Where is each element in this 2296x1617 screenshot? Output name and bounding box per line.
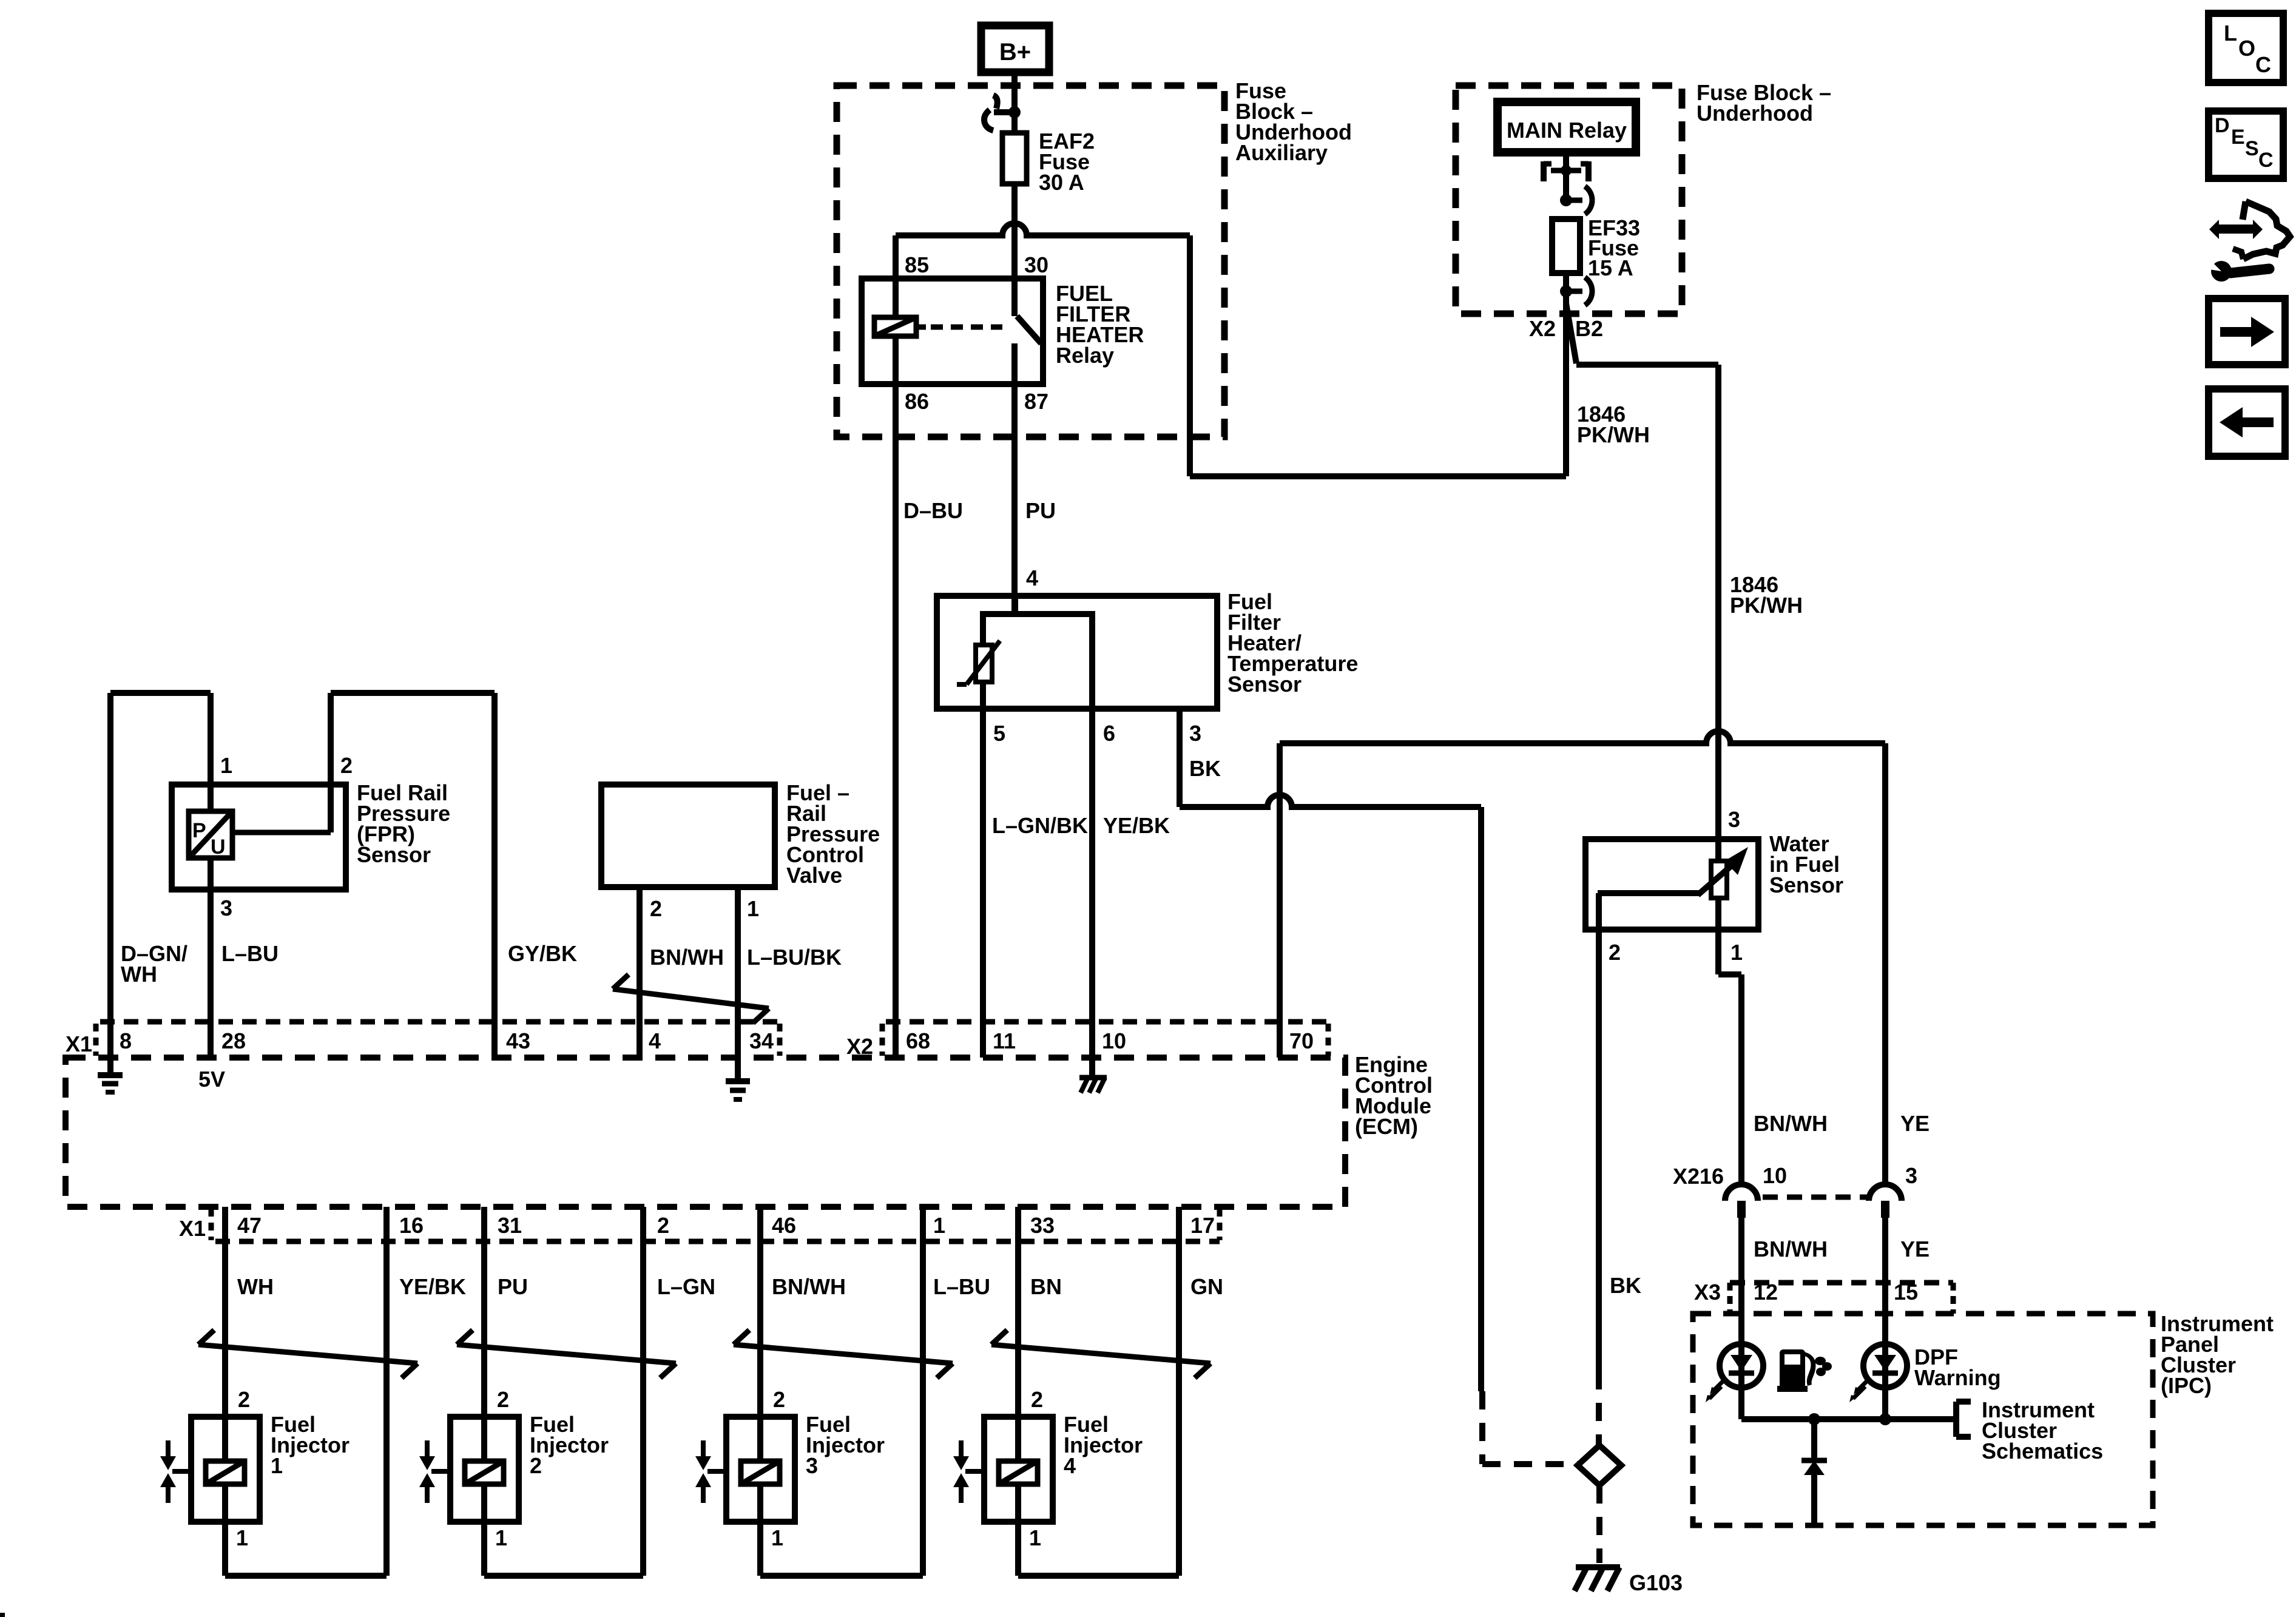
svg-text:10: 10 bbox=[1102, 1028, 1126, 1053]
svg-text:L–GN: L–GN bbox=[657, 1274, 715, 1299]
svg-text:YE: YE bbox=[1900, 1237, 1930, 1261]
svg-text:L–GN/BK: L–GN/BK bbox=[992, 813, 1088, 838]
svg-text:L–BU: L–BU bbox=[221, 941, 279, 966]
svg-text:46: 46 bbox=[772, 1213, 796, 1238]
svg-text:8: 8 bbox=[120, 1028, 132, 1053]
svg-text:X2: X2 bbox=[846, 1034, 873, 1059]
svg-text:17: 17 bbox=[1190, 1213, 1215, 1238]
svg-text:D–BU: D–BU bbox=[903, 498, 963, 523]
svg-text:S: S bbox=[2245, 137, 2259, 160]
svg-text:WH: WH bbox=[237, 1274, 274, 1299]
svg-text:C: C bbox=[2258, 149, 2274, 172]
svg-text:GN: GN bbox=[1190, 1274, 1223, 1299]
svg-text:X3: X3 bbox=[1694, 1280, 1721, 1305]
svg-text:34: 34 bbox=[749, 1028, 774, 1053]
svg-text:D: D bbox=[2215, 114, 2230, 137]
svg-text:YE: YE bbox=[1900, 1111, 1930, 1136]
svg-text:30: 30 bbox=[1024, 252, 1048, 277]
svg-text:2: 2 bbox=[657, 1213, 669, 1238]
svg-text:16: 16 bbox=[399, 1213, 424, 1238]
svg-text:YE/BK: YE/BK bbox=[399, 1274, 466, 1299]
svg-text:1: 1 bbox=[1029, 1525, 1041, 1550]
svg-text:G103: G103 bbox=[1629, 1570, 1683, 1595]
svg-text:BN/WH: BN/WH bbox=[772, 1274, 846, 1299]
svg-text:2: 2 bbox=[773, 1387, 785, 1412]
svg-text:L–BU: L–BU bbox=[933, 1274, 990, 1299]
svg-text:43: 43 bbox=[506, 1028, 530, 1053]
svg-text:3: 3 bbox=[220, 896, 232, 920]
svg-text:L–BU/BK: L–BU/BK bbox=[747, 945, 842, 970]
svg-text:4: 4 bbox=[649, 1028, 661, 1053]
svg-text:12: 12 bbox=[1754, 1280, 1778, 1305]
svg-text:2: 2 bbox=[497, 1387, 509, 1412]
svg-text:P: P bbox=[192, 819, 206, 842]
svg-text:BK: BK bbox=[1610, 1273, 1641, 1298]
svg-text:PK/WH: PK/WH bbox=[1577, 422, 1650, 447]
svg-text:X2: X2 bbox=[1529, 316, 1556, 341]
svg-text:1: 1 bbox=[220, 753, 232, 778]
svg-text:87: 87 bbox=[1024, 389, 1048, 414]
svg-text:GY/BK: GY/BK bbox=[508, 941, 577, 966]
svg-text:1: 1 bbox=[236, 1525, 248, 1550]
svg-text:70: 70 bbox=[1289, 1028, 1314, 1053]
svg-text:Schematics: Schematics bbox=[1982, 1439, 2103, 1463]
svg-text:X216: X216 bbox=[1673, 1164, 1724, 1189]
svg-text:5V: 5V bbox=[198, 1067, 225, 1092]
svg-text:30 A: 30 A bbox=[1039, 170, 1084, 195]
svg-text:PU: PU bbox=[1025, 498, 1056, 523]
svg-text:2: 2 bbox=[530, 1453, 542, 1478]
svg-text:33: 33 bbox=[1030, 1213, 1055, 1238]
svg-text:1: 1 bbox=[495, 1525, 507, 1550]
svg-text:85: 85 bbox=[905, 252, 929, 277]
svg-text:2: 2 bbox=[340, 753, 353, 778]
svg-text:MAIN Relay: MAIN Relay bbox=[1507, 118, 1627, 143]
svg-text:E: E bbox=[2231, 126, 2245, 149]
svg-text:Sensor: Sensor bbox=[1227, 672, 1302, 697]
svg-text:4: 4 bbox=[1026, 565, 1038, 590]
svg-text:BN/WH: BN/WH bbox=[1754, 1111, 1828, 1136]
svg-text:YE/BK: YE/BK bbox=[1103, 813, 1170, 838]
svg-text:3: 3 bbox=[806, 1453, 818, 1478]
svg-text:C: C bbox=[2255, 52, 2271, 77]
svg-text:3: 3 bbox=[1728, 807, 1740, 832]
svg-text:28: 28 bbox=[221, 1028, 246, 1053]
svg-text:O: O bbox=[2238, 36, 2255, 61]
svg-text:15 A: 15 A bbox=[1588, 255, 1633, 280]
svg-text:1: 1 bbox=[771, 1525, 783, 1550]
svg-text:47: 47 bbox=[237, 1213, 262, 1238]
svg-text:U: U bbox=[211, 836, 226, 859]
svg-text:BN/WH: BN/WH bbox=[650, 945, 724, 970]
svg-text:Sensor: Sensor bbox=[357, 842, 431, 867]
svg-text:(IPC): (IPC) bbox=[2161, 1373, 2212, 1398]
svg-text:BK: BK bbox=[1189, 756, 1221, 781]
svg-text:Underhood: Underhood bbox=[1697, 101, 1813, 126]
svg-text:5: 5 bbox=[993, 721, 1005, 746]
svg-text:1: 1 bbox=[271, 1453, 283, 1478]
svg-text:11: 11 bbox=[993, 1028, 1016, 1053]
svg-text:Sensor: Sensor bbox=[1769, 873, 1843, 897]
svg-text:WH: WH bbox=[121, 962, 157, 987]
svg-text:86: 86 bbox=[905, 389, 929, 414]
svg-text:X1: X1 bbox=[179, 1216, 206, 1241]
svg-text:L: L bbox=[2224, 21, 2237, 46]
svg-text:3: 3 bbox=[1189, 721, 1201, 746]
svg-text:(ECM): (ECM) bbox=[1355, 1114, 1418, 1139]
svg-text:15: 15 bbox=[1894, 1280, 1918, 1305]
svg-text:PU: PU bbox=[498, 1274, 528, 1299]
svg-text:BN: BN bbox=[1030, 1274, 1062, 1299]
svg-text:10: 10 bbox=[1763, 1163, 1787, 1188]
svg-text:4: 4 bbox=[1064, 1453, 1076, 1478]
svg-text:3: 3 bbox=[1905, 1163, 1917, 1188]
svg-text:BN/WH: BN/WH bbox=[1754, 1237, 1828, 1261]
svg-text:2: 2 bbox=[650, 896, 662, 921]
svg-text:X1: X1 bbox=[66, 1031, 92, 1056]
svg-text:31: 31 bbox=[498, 1213, 522, 1238]
svg-text:2: 2 bbox=[238, 1387, 250, 1412]
svg-text:2: 2 bbox=[1031, 1387, 1043, 1412]
svg-text:68: 68 bbox=[906, 1028, 930, 1053]
svg-text:B+: B+ bbox=[999, 39, 1031, 66]
svg-text:Valve: Valve bbox=[786, 863, 842, 888]
svg-text:B2: B2 bbox=[1575, 316, 1603, 341]
svg-text:1: 1 bbox=[933, 1213, 945, 1238]
svg-text:Relay: Relay bbox=[1056, 343, 1114, 368]
svg-text:Warning: Warning bbox=[1914, 1365, 2001, 1390]
svg-text:PK/WH: PK/WH bbox=[1730, 593, 1803, 618]
svg-text:1: 1 bbox=[747, 896, 759, 921]
svg-text:6: 6 bbox=[1103, 721, 1115, 746]
svg-text:1: 1 bbox=[1730, 940, 1743, 965]
svg-text:2: 2 bbox=[1609, 940, 1621, 965]
svg-text:Auxiliary: Auxiliary bbox=[1235, 140, 1328, 165]
